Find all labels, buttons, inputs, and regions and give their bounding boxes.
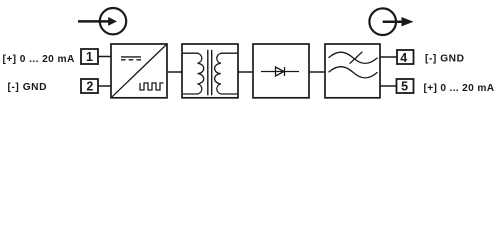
svg-text:[+] 0 ... 20 mA: [+] 0 ... 20 mA (424, 83, 495, 94)
svg-text:[-] GND: [-] GND (425, 54, 465, 65)
wire terminal1 to converter (98, 56, 111, 58)
square-wave symbol (140, 83, 164, 90)
rectifier block (diode) (253, 44, 309, 98)
primary winding (183, 53, 204, 94)
wire filter to terminal 5 (380, 85, 397, 87)
svg-text:2: 2 (86, 80, 93, 94)
wire transformer to rectifier (238, 71, 253, 73)
terminal 1 (81, 49, 98, 64)
diode D1 (261, 67, 299, 76)
terminal 5 (397, 79, 414, 93)
terminal 4 (397, 50, 414, 64)
wire terminal2 to converter (98, 85, 111, 87)
wire converter to transformer (167, 71, 182, 73)
wire rectifier to filter (309, 71, 325, 73)
input current symbol (circle with arrow in) (78, 8, 126, 34)
DC symbol (solid over dashed) (121, 57, 141, 60)
output current symbol (circle with arrow out) (369, 8, 413, 35)
terminal 2 (81, 79, 98, 93)
filter bottom sine (329, 67, 378, 78)
converter diagonal divider (111, 44, 167, 98)
svg-text:4: 4 (400, 51, 407, 65)
filter top sine (crossed) (329, 52, 378, 63)
svg-text:5: 5 (401, 80, 408, 94)
filter cross slash (350, 52, 363, 64)
secondary winding (215, 53, 238, 94)
low-pass filter block (325, 44, 380, 98)
transformer block T1 (182, 44, 238, 98)
DC/DC converter block U1 (111, 44, 167, 98)
transformer core (207, 50, 209, 96)
svg-text:1: 1 (86, 50, 93, 64)
svg-text:[-] GND: [-] GND (8, 82, 48, 93)
wire filter to terminal 4 (380, 56, 397, 58)
svg-text:[+] 0 ... 20 mA: [+] 0 ... 20 mA (3, 54, 75, 65)
